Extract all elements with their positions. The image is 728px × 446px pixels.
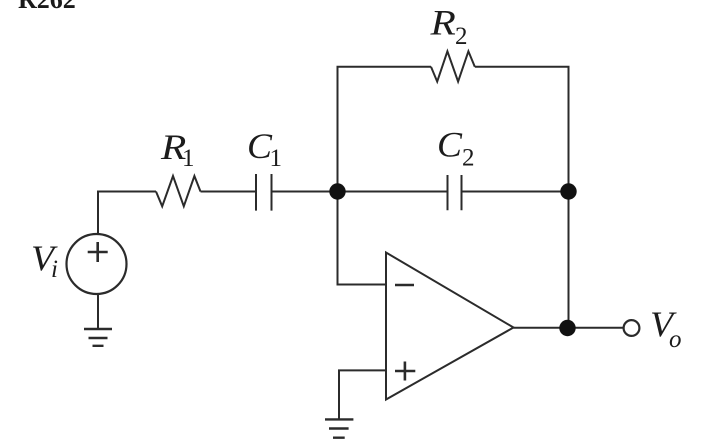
svg-text:2: 2 [455,23,468,50]
op-amp minus symbol [395,284,414,287]
svg-text:2: 2 [462,144,475,171]
node A junction dot [329,183,345,199]
svg-text:R: R [429,3,456,43]
node B junction dot [560,183,576,199]
ground at op-amp non-inverting input [325,419,353,437]
label R1 [160,127,195,172]
svg-text:C: C [437,124,462,164]
label Vi [31,238,59,283]
wire: node A up to feedback branch, top wire left part [338,67,432,192]
label Vo [650,304,682,353]
resistor R2 [431,51,475,81]
op-amp U1 [386,253,514,400]
wire: node A down and into op-amp inverting input [338,192,387,285]
svg-text:R262: R262 [18,0,76,14]
output node junction dot [559,320,575,336]
wire: C2 to node B [462,191,569,193]
wire: source bottom lead to ground [97,294,99,329]
voltage source Vi circle [67,234,127,294]
wire: non-inverting input lead to ground [339,370,386,419]
resistor R1 [156,176,201,206]
wire: R2 to top-right corner and down right side [475,67,569,328]
label C1 [247,126,282,172]
output terminal Vo open circle [624,320,640,336]
wire: node A to C2 [338,191,448,193]
plus sign inside source Vi [88,242,108,262]
svg-text:o: o [669,326,682,353]
wire: source Vi top lead up to main line corner [98,192,156,235]
wire: op-amp output to terminal [514,327,624,329]
svg-text:i: i [51,256,58,283]
svg-text:1: 1 [182,145,195,172]
svg-text:1: 1 [270,145,283,172]
wire: C1 to node A [272,191,338,193]
wire: R1 to C1 [201,191,257,193]
capacitor C1 [256,174,272,211]
label R2 [429,3,467,50]
ground under source Vi [84,329,112,346]
op-amp plus symbol [395,362,415,381]
label C2 [437,124,475,171]
capacitor C2 [448,175,462,210]
